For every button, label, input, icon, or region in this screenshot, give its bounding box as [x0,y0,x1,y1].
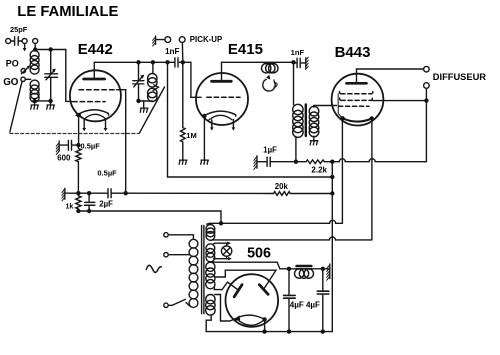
node T1 primary bottom [294,160,298,164]
node 1k top [76,191,80,195]
svg-text:506: 506 [247,245,271,261]
switch wiper arrow PO [22,68,28,74]
wire cathode V2 to ground [203,116,205,160]
variable capacitor CV1 [50,51,52,73]
wire line211 to transformer [78,211,221,223]
inductor L2b tank coil lower [148,88,157,97]
node varcap1 top [49,47,53,51]
filament leg V1 left [83,119,85,128]
svg-text:B443: B443 [335,44,371,61]
inductor L1b antenna coil lower [30,80,39,89]
svg-text:PICK-UP: PICK-UP [190,35,222,44]
capacitor 0.5uF#2 [108,189,111,198]
wire anode rail V2 [222,61,294,63]
node tank2 coil top [151,60,155,64]
wire terminal2 down [425,88,427,161]
ground tank2 [143,101,145,107]
node 2uF top [87,191,91,195]
svg-text:1M: 1M [186,131,196,140]
wire screen V3 to right [372,100,426,102]
capacitor 4uF second [322,269,324,332]
capacitor C-ant 25pF [15,37,19,45]
wire tank2 bottom [139,100,153,102]
node filament left V3 [340,116,344,120]
winding W4 [206,295,215,304]
chassis 1uF [256,156,258,168]
chassis pickup ground [155,36,157,44]
node filament right V3 [370,116,374,120]
resistor 2.2k [296,160,332,164]
dial lamp [221,246,231,256]
wire g2 to right [117,90,126,194]
node grid feed E415 [181,60,185,64]
resistor 600 [76,147,81,163]
grid g1 V1 dashed [73,101,106,103]
grid g2 V1 dashed [79,89,117,91]
node filament right V4 [262,317,266,321]
wire y177 line [168,176,333,178]
grid row3 V3 dashed [339,105,370,107]
antenna tap terminal B [22,39,27,44]
resistor 20k [274,192,333,196]
switch contact GO [21,77,25,81]
node B- filament [262,329,266,333]
switch lever GO diagonal [10,82,22,132]
svg-text:25pF: 25pF [10,25,28,34]
svg-text:2.2k: 2.2k [311,166,327,175]
chassis 1nF#2 [305,58,307,68]
ground under coil L1 [34,101,36,104]
tube V1 E442 envelope [70,70,121,121]
ground 1M [179,160,187,164]
svg-text:1nF: 1nF [165,47,180,56]
filament leg V1 right [105,119,107,128]
wire rail corner to E442 grid [66,50,72,102]
ground cathode V2 [201,160,209,164]
inductor RF choke on anode [262,63,271,72]
capacitor 1uF [257,161,266,163]
mains terminal 1 [164,233,168,237]
node 2.2k right [330,160,334,164]
tube V2 E415 envelope [196,73,248,125]
svg-text:600: 600 [57,154,71,163]
node grid2 line junction [124,191,128,195]
anode bar V1 [84,78,105,81]
wire terminal C down to rail [34,44,36,50]
anode bar V4 right [259,285,268,295]
wire T1 primary bottom down [295,137,297,162]
anode bar V4 left [234,285,242,297]
wire GO to coil [25,78,30,80]
svg-text:E442: E442 [78,41,113,58]
svg-text:2µF: 2µF [99,200,113,209]
capacitor 0.5uF#1 [59,144,67,146]
ground T1 secondary [310,141,318,145]
wire mains3 [168,304,172,306]
filament arrow V4 [233,315,240,320]
resistor 1k [76,193,81,211]
filament leg V2 right [232,119,234,127]
variable capacitor CV2 [138,62,140,80]
transformer T1 core [305,105,307,137]
pickup terminal 2 [179,37,185,43]
node B- cap1 [287,329,291,333]
wire 1M to ground [182,146,184,160]
ground under varcap1 [50,101,52,104]
inductor L2a tank coil upper [152,62,154,73]
wire filament right leg down [371,119,373,240]
node screen junction [424,98,428,102]
filter choke coil [295,269,304,278]
node 0.5uF junction [76,143,80,147]
wire W3 tap to right anode [215,270,276,289]
wire W4 bottom [206,315,211,332]
wire T1 secondary bottom [313,136,315,140]
wire x332 vertical [331,162,333,332]
node B- cap2 [321,329,325,333]
node HT feed top [165,60,169,64]
wire W2 bottom arrow [214,257,229,260]
chassis for C 0.5uF#1 [58,141,60,151]
node varcap1 bottom [48,99,52,103]
filament inner arc V2 [209,115,232,120]
transformer T2 primary [189,239,198,248]
wire grid feed down [191,62,201,97]
anode stem V1 [93,62,95,78]
svg-text:GO: GO [3,77,19,88]
wire chassis to pickup terminal [156,39,165,41]
node choke left [287,267,291,271]
wire HT vertical x167 [167,62,169,177]
svg-text:0.5µF: 0.5µF [97,168,117,177]
wire W1 bottom [210,237,372,241]
filament lens V4 [236,315,264,325]
anode stem V2 [221,62,223,80]
filament leg V2 left [211,120,213,128]
chassis line193 left [64,188,66,199]
filament arc V3 [343,118,372,121]
winding W1 [206,225,215,234]
switch contact PO [21,69,25,73]
svg-text:DIFFUSEUR: DIFFUSEUR [433,72,486,82]
capacitor 4uF first [288,269,290,332]
AC symbol [146,265,161,272]
filament inner arc V1 [84,114,106,119]
wire anode node down to transformer T1 primary [293,62,295,105]
node top rail junction [33,47,37,51]
wire pickup down [181,43,183,127]
filter choke core [297,265,312,268]
anode bar V3 [346,82,366,85]
wire 600 down to line [77,163,79,193]
wire B+ line [280,268,330,270]
capacitor 1nF#1 [175,58,178,67]
anode bar V2 [212,80,232,83]
node tank2 bottom [136,99,140,103]
svg-text:E415: E415 [228,41,263,58]
arrow below terminal B [24,44,26,49]
wire mains2 tap [168,254,189,256]
wire filament left leg down [341,118,343,223]
anode stem V3 [356,69,358,82]
node anode junction V2 [291,60,295,64]
transformer T1 secondary coil [309,106,319,116]
filament outer arc V1 [76,110,108,116]
internal wire g to cathode V3 [338,94,342,119]
svg-text:20k: 20k [275,182,289,191]
wire line193 to 20k [126,192,274,194]
speaker terminal 2 [424,83,430,89]
speaker terminal 1 [424,66,430,72]
transformer T1 primary coil [293,104,303,114]
node 2uF bottom [87,209,91,213]
node cathode tap V1 [77,113,81,117]
wire tank top rail [35,49,66,51]
wire line193 [65,192,108,194]
wire W2 top arrow [214,242,228,245]
wire 1nF to node [179,61,191,63]
wire T1 secondary top to B443 grid [314,106,337,108]
wire B- rail [206,331,332,333]
svg-text:PO: PO [6,58,19,68]
wire W4 top to filament [215,295,236,322]
wire antenna to cap [11,40,14,42]
wire anode V3 to speaker [357,68,424,70]
filament outer arc V2 [204,111,236,116]
capacitor 2uF [88,193,90,211]
wire filament V4 down [264,319,266,331]
node y193 [330,191,334,195]
svg-text:1k: 1k [66,203,74,210]
node 1k bottom [76,209,80,213]
wire W3 bottom to left anode [214,282,237,290]
wire W1 top heater line [207,220,343,224]
wire coil bottom rail [35,100,51,102]
winding W2 [206,244,215,253]
node choke right [321,267,325,271]
node CV2 top [136,60,140,64]
svg-text:1nF: 1nF [291,48,305,57]
pickup terminal 1 [165,37,171,43]
resistor 1M [181,126,186,145]
svg-text:LE FAMILIALE: LE FAMILIALE [17,4,118,20]
inductor L1a antenna coil upper [30,51,39,60]
node cathode tap V2 [202,114,206,118]
mains terminal 3 [164,303,168,307]
grid row1 V3 dashed [341,93,372,95]
node heater junction [219,221,223,225]
transformer T2 core [202,226,204,314]
wire cathode down [78,115,80,145]
tube V3 B443 envelope [332,74,384,126]
mains terminal 2 [164,253,168,257]
wire anode rail [94,61,174,63]
wire mains1 [168,235,193,240]
svg-text:0.5µF: 0.5µF [81,141,101,150]
node y177 [330,175,334,179]
svg-text:1µF: 1µF [263,145,277,154]
node coil bottom [32,99,36,103]
tube V4 506 envelope [226,274,279,327]
winding W3 [206,262,215,271]
reaction arrow symbol [263,79,275,91]
wire HT line with hops [332,159,426,162]
antenna coil terminal C [33,39,38,44]
grid row2 V3 dashed [341,99,371,101]
capacitor 1nF#2 [297,58,300,67]
svg-text:4µF 4µF: 4µF 4µF [290,301,320,310]
grid V2 dashed [207,96,240,98]
wire W3 top to jog [210,262,280,269]
dash-dot gang line [10,129,139,134]
antenna terminal A [6,39,11,44]
chassis B+ [329,264,331,279]
switch mains [172,299,185,305]
gang diagonal to tank2 [139,87,164,133]
